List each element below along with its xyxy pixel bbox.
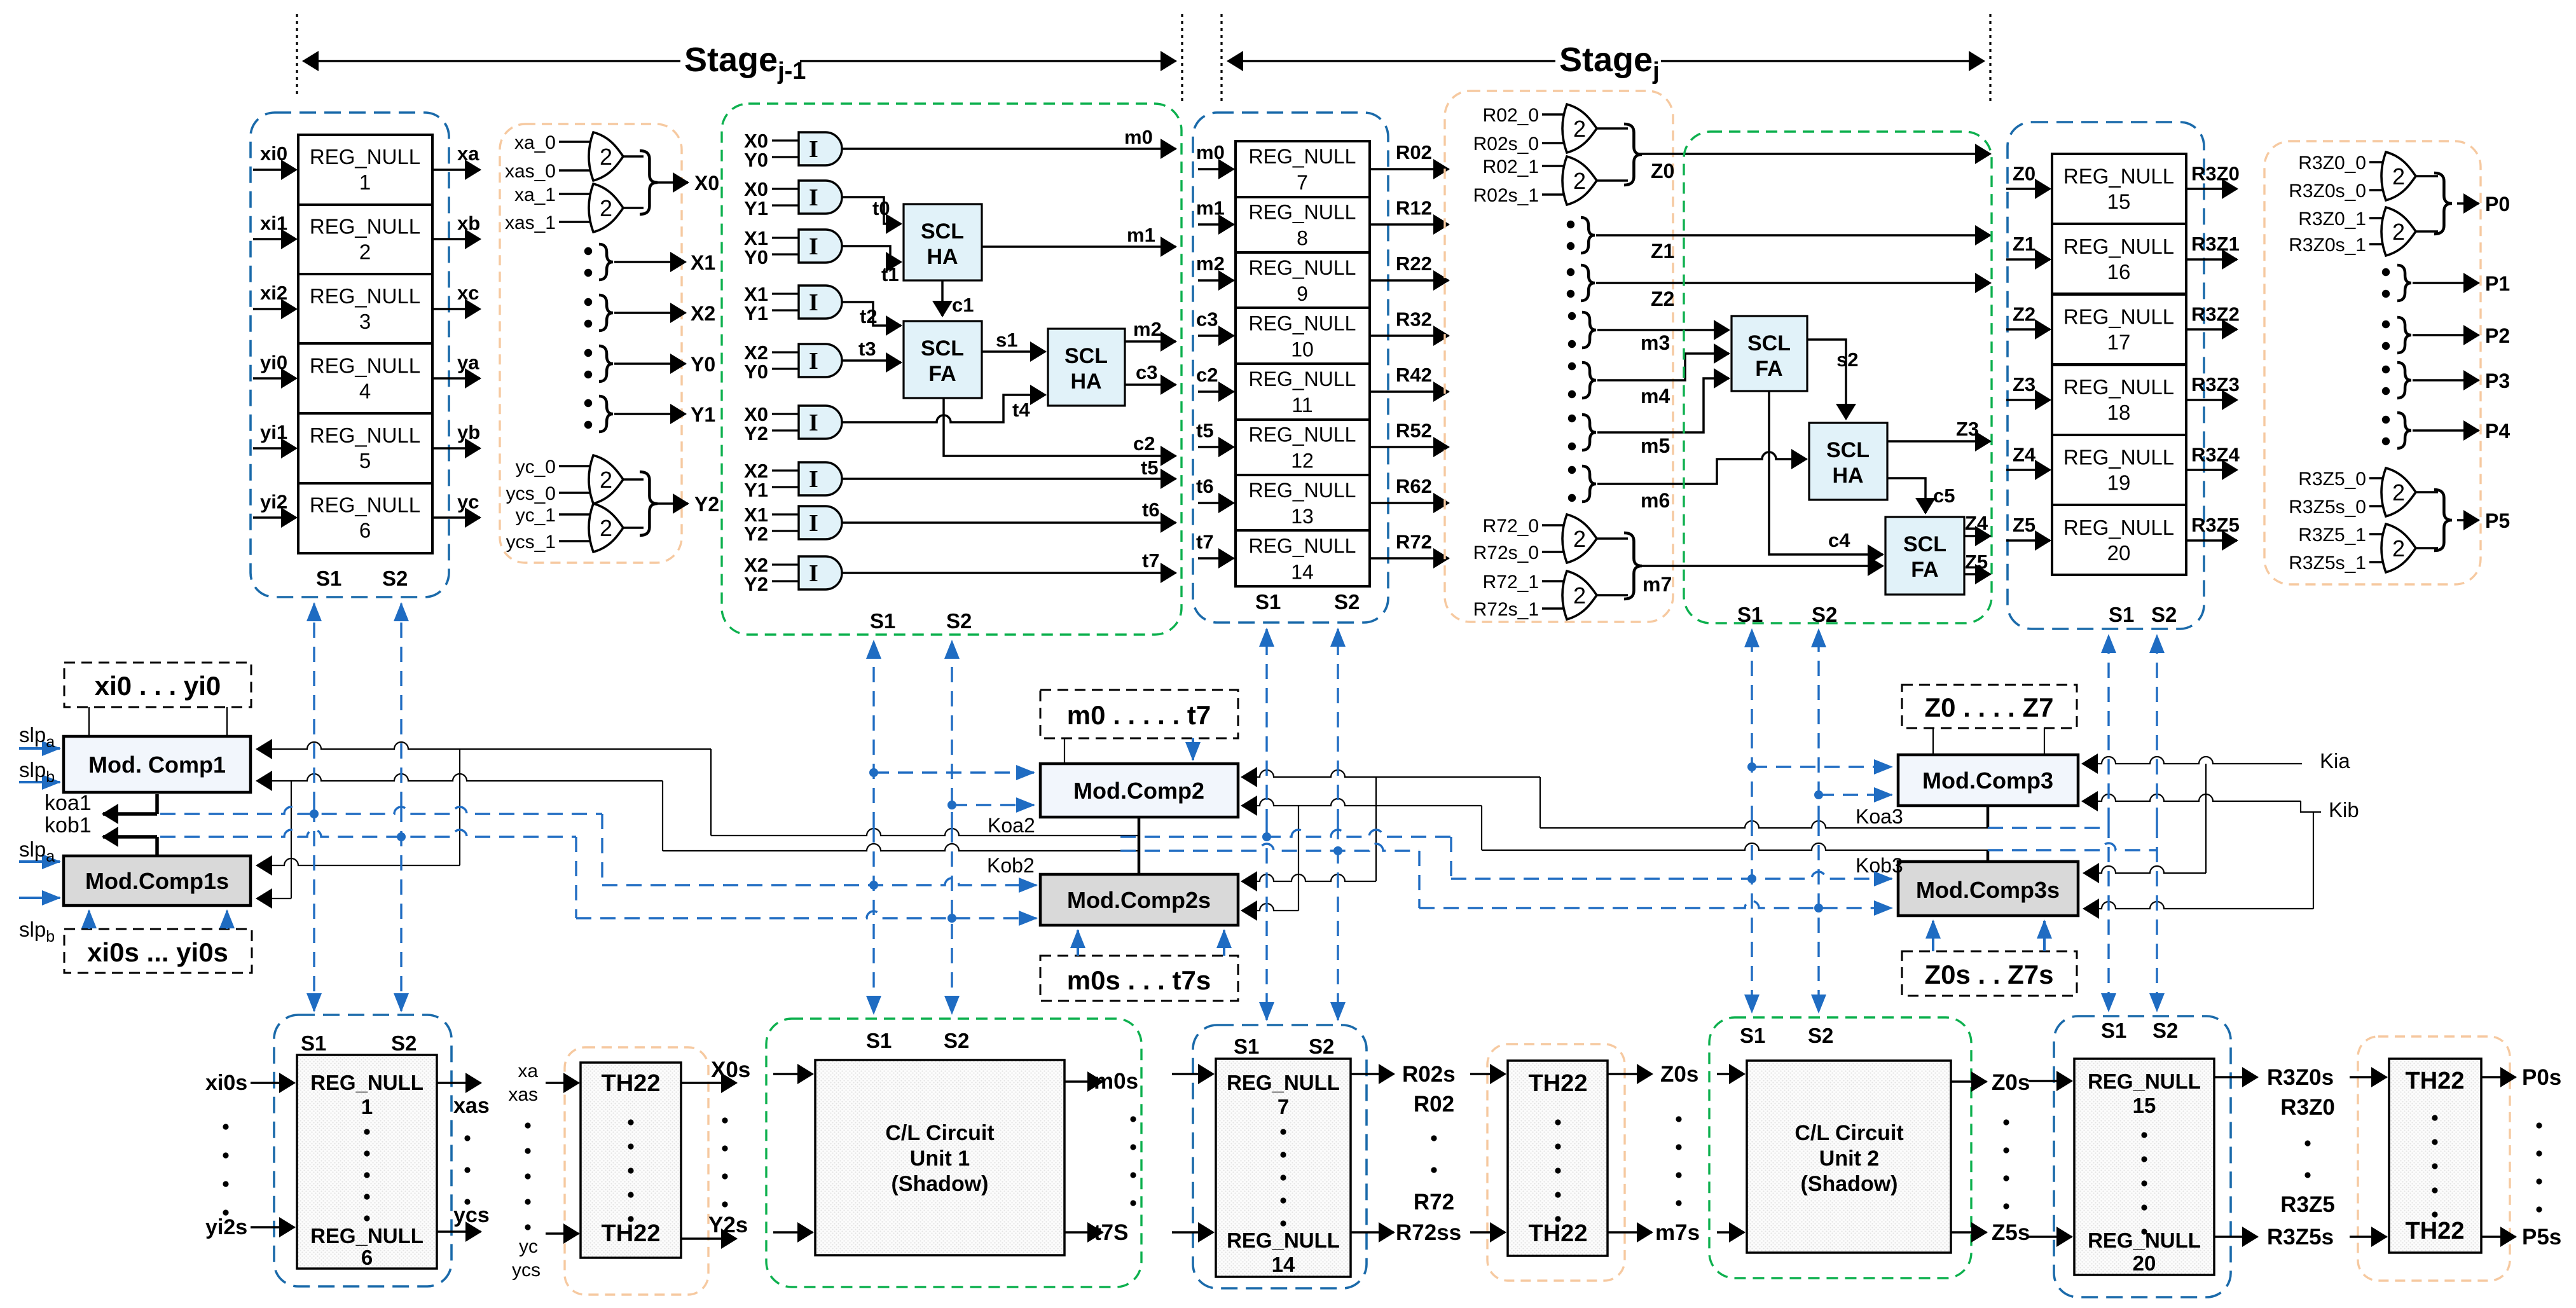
shadow register bank REG_NULL 7-14s dashed enclosure: [1193, 1025, 1367, 1288]
shadow register bank REG_NULL 15-20s dashed enclosure: [2054, 1016, 2231, 1297]
TH22 column 3 dashed enclosure: [2358, 1036, 2510, 1281]
svg-text:S2: S2: [2151, 603, 2177, 626]
svg-text:12: 12: [1291, 449, 1314, 472]
mux (abbrev dots) m5: [1568, 415, 1576, 422]
wire Koa2: [711, 829, 1139, 836]
svg-text:R02_1: R02_1: [1483, 156, 1539, 177]
wire c4: [1769, 391, 1883, 554]
svg-text:3: 3: [359, 310, 371, 333]
svg-text:xa_0: xa_0: [514, 132, 556, 153]
svg-text:Z0s: Z0s: [1660, 1062, 1698, 1087]
wire yc/ycs into TH22: [546, 1232, 579, 1235]
svg-text:REG_NULL: REG_NULL: [1227, 1071, 1340, 1094]
wire R3Z0s: [2214, 1076, 2257, 1078]
wire output ya: [432, 377, 480, 380]
wire c2: [944, 398, 1176, 456]
wire P5s: [2481, 1236, 2516, 1238]
svg-text:c2: c2: [1133, 432, 1155, 455]
mux (abbrev dots) X2: [584, 298, 592, 306]
wire into unit1 bottom: [773, 1231, 813, 1234]
svg-text:TH22: TH22: [602, 1220, 661, 1247]
svg-text:P4: P4: [2485, 420, 2510, 443]
junction dot at 631,1316: [397, 832, 406, 841]
svg-text:Z5: Z5: [2013, 514, 2035, 536]
register REG_NULL 13: [1236, 475, 1370, 531]
svg-text:R72s_1: R72s_1: [1473, 599, 1539, 620]
wire S1 rail REG bank 2 (blue dashed): [1265, 629, 1267, 824]
node box xi0s...yi0s: [64, 929, 252, 973]
svg-text:Mod. Comp1: Mod. Comp1: [88, 752, 226, 778]
svg-text:c5: c5: [1933, 485, 1955, 507]
node box xi0...yi0: [64, 663, 251, 707]
svg-text:c3: c3: [1136, 361, 1157, 383]
wire xi0s-yi0s to Comp1s (blue arrows): [88, 911, 90, 929]
svg-text:R3Z4: R3Z4: [2191, 443, 2240, 465]
register REG_NULL 20: [2052, 505, 2186, 575]
junction dot at 494,1280: [310, 809, 319, 818]
brace P0: [2434, 173, 2452, 234]
wire S1 rail REG bank 3 (blue dashed): [2107, 635, 2109, 823]
svg-text:REG_NULL: REG_NULL: [1249, 200, 1356, 223]
svg-text:m6: m6: [1641, 489, 1670, 512]
brace Z0: [1624, 124, 1642, 185]
svg-text:s1: s1: [996, 329, 1017, 351]
svg-text:20: 20: [2133, 1251, 2156, 1275]
wire Koa2 select (blue dashed): [1120, 830, 1451, 837]
svg-text:R3Z0: R3Z0: [2280, 1095, 2335, 1120]
wire m1: [982, 245, 1176, 248]
wire P1: [2413, 282, 2479, 284]
completion detector Mod.Comp3s: [1898, 862, 2078, 916]
register REG_NULL 1: [298, 135, 432, 205]
svg-text:X0: X0: [694, 172, 719, 195]
svg-text:S1: S1: [1255, 590, 1281, 614]
svg-text:Z5s: Z5s: [1992, 1220, 2030, 1245]
svg-text:xi0 . . . yi0: xi0 . . . yi0: [95, 671, 221, 701]
svg-text:REG_NULL: REG_NULL: [1249, 145, 1356, 168]
svg-text:t5: t5: [1196, 419, 1214, 441]
wire output R02: [1370, 168, 1449, 170]
wire Kob3 branch to Comp2s: [1298, 806, 1299, 911]
wire input t5: [1198, 446, 1234, 448]
svg-text:R3Z1: R3Z1: [2191, 233, 2240, 255]
svg-text:m3: m3: [1641, 331, 1670, 354]
svg-text:X0s: X0s: [711, 1057, 750, 1082]
svg-text:R3Z0: R3Z0: [2191, 162, 2240, 184]
wire P4: [2413, 429, 2479, 432]
svg-text:Y2: Y2: [694, 493, 719, 516]
svg-text:m0s: m0s: [1094, 1069, 1138, 1094]
wire yi2s: [251, 1226, 294, 1229]
completion detector Mod. Comp1: [64, 736, 251, 792]
wire output R52: [1370, 446, 1449, 448]
svg-text:18: 18: [2107, 401, 2131, 424]
svg-text:xa: xa: [457, 142, 479, 165]
svg-text:S1: S1: [2109, 603, 2134, 626]
wire input Z0: [2006, 188, 2050, 190]
wire Koa2 branch to Comp1s: [459, 749, 460, 865]
wire into REG15-20s bottom: [2028, 1236, 2072, 1238]
register REG_NULL 17: [2052, 294, 2186, 364]
wire xi0s: [251, 1082, 294, 1084]
svg-text:Z4: Z4: [2013, 443, 2036, 465]
svg-text:REG_NULL: REG_NULL: [310, 423, 420, 447]
svg-text:yi1: yi1: [260, 421, 287, 443]
svg-text:t5: t5: [1141, 457, 1159, 479]
wire m7s: [1608, 1231, 1652, 1234]
wire P3: [2413, 379, 2479, 382]
svg-text:Y1: Y1: [744, 479, 768, 501]
svg-text:R12: R12: [1396, 196, 1432, 219]
TH22 block column 2: [1508, 1061, 1608, 1256]
wire s1: [982, 350, 1045, 353]
wire output R72: [1370, 557, 1449, 560]
mux (abbrev dots) m4: [1568, 362, 1576, 370]
mux (abbrev dots) Y0: [584, 349, 592, 357]
svg-text:REG_NULL: REG_NULL: [310, 1071, 424, 1094]
TH22 block column 1: [581, 1063, 681, 1258]
completion detector Mod.Comp3: [1898, 755, 2078, 806]
svg-text:TH22: TH22: [2406, 1068, 2465, 1094]
svg-text:R3Z0s_1: R3Z0s_1: [2289, 235, 2366, 256]
wire slpb: [19, 897, 60, 899]
wire into TH22-3 top: [2350, 1076, 2387, 1078]
register REG_NULL 8: [1236, 197, 1370, 253]
mux (abbrev dots) P3: [2382, 366, 2390, 373]
svg-text:Mod.Comp3: Mod.Comp3: [1922, 768, 2053, 794]
junction dot at 2860,1250: [1814, 790, 1823, 799]
svg-text:Z0: Z0: [1651, 160, 1674, 182]
svg-text:Z1: Z1: [2013, 233, 2035, 255]
svg-text:m7: m7: [1643, 573, 1672, 596]
register bank REG_NULL 7-14 dashed enclosure: [1193, 113, 1388, 623]
brace Y2: [640, 472, 658, 535]
svg-text:REG_NULL: REG_NULL: [310, 214, 420, 238]
junction dot at 1374,1215: [869, 768, 878, 777]
svg-text:Y1: Y1: [744, 302, 768, 324]
svg-text:REG_NULL: REG_NULL: [2088, 1229, 2201, 1252]
svg-text:c2: c2: [1196, 364, 1218, 386]
svg-text:Unit 1: Unit 1: [910, 1146, 970, 1171]
wire input xi1: [253, 238, 296, 240]
svg-text:REG_NULL: REG_NULL: [310, 354, 420, 377]
register REG_NULL 3: [298, 274, 432, 344]
wire input Z4: [2006, 469, 2050, 471]
svg-text:P1: P1: [2485, 272, 2510, 295]
junction dot at 1992,1316: [1262, 832, 1271, 841]
svg-text:Z3: Z3: [2013, 373, 2035, 396]
svg-text:xa_1: xa_1: [514, 184, 556, 205]
node box Z0....Z7: [1902, 685, 2077, 728]
wire Z0s-Z7s to Comp3s (blue arrows): [1932, 921, 1934, 951]
svg-text:Unit 2: Unit 2: [1819, 1146, 1879, 1171]
wire t1: [842, 246, 901, 262]
junction dot at 2860,1428: [1814, 904, 1823, 912]
svg-text:c1: c1: [952, 294, 974, 316]
wire input m2: [1198, 279, 1234, 282]
wire output R12: [1370, 223, 1449, 226]
svg-text:S1: S1: [870, 609, 895, 633]
svg-text:s2: s2: [1836, 348, 1858, 371]
svg-text:Kib: Kib: [2329, 798, 2359, 822]
wire Z0s out of TH22-2: [1608, 1073, 1652, 1075]
svg-text:1: 1: [361, 1095, 373, 1119]
svg-text:REG_NULL: REG_NULL: [1249, 534, 1356, 557]
register REG_NULL 11: [1236, 364, 1370, 420]
register REG_NULL 19: [2052, 435, 2186, 505]
wire Kob2: [663, 844, 1139, 851]
register REG_NULL 18: [2052, 365, 2186, 435]
svg-text:HA: HA: [926, 245, 958, 269]
svg-text:REG_NULL: REG_NULL: [310, 145, 420, 169]
wire Z1: [1596, 234, 1990, 237]
svg-text:R22: R22: [1396, 252, 1432, 275]
svg-text:Kia: Kia: [2320, 749, 2350, 773]
svg-text:15: 15: [2133, 1094, 2156, 1117]
svg-text:Z5: Z5: [1965, 551, 1988, 573]
wire into TH22-2 bottom: [1470, 1231, 1505, 1234]
svg-text:X1: X1: [691, 251, 715, 274]
svg-text:REG_NULL: REG_NULL: [310, 284, 420, 308]
wire input xi0: [253, 169, 296, 171]
svg-text:R3Z5s: R3Z5s: [2267, 1225, 2334, 1249]
svg-text:Y0: Y0: [744, 361, 768, 383]
wire S1 rail C/L unit 2 (blue dashed): [1751, 630, 1753, 821]
register bank REG_NULL 1-6 dashed enclosure: [251, 113, 449, 597]
svg-text:yi2s: yi2s: [205, 1215, 247, 1239]
SCL HA 2: [1048, 329, 1125, 406]
svg-text:4: 4: [359, 379, 371, 403]
svg-text:S1: S1: [2101, 1019, 2126, 1042]
wire Y2: [658, 502, 688, 505]
svg-text:t6: t6: [1142, 499, 1160, 521]
wire X1: [614, 261, 685, 263]
wire t7S: [1064, 1231, 1103, 1234]
svg-text:R3Z0_1: R3Z0_1: [2298, 209, 2366, 230]
svg-text:FA: FA: [1755, 357, 1782, 381]
svg-text:t1: t1: [881, 263, 899, 286]
svg-text:REG_NULL: REG_NULL: [2088, 1070, 2201, 1093]
register REG_NULL 2: [298, 205, 432, 275]
svg-text:yc: yc: [519, 1236, 538, 1257]
wire P5: [2457, 519, 2479, 521]
svg-text:SCL: SCL: [1747, 331, 1791, 355]
svg-text:P2: P2: [2485, 324, 2510, 347]
register REG_NULL 10: [1236, 308, 1370, 364]
wire R3Z5s: [2214, 1236, 2257, 1238]
mux column 1 dashed enclosure: [500, 124, 682, 563]
brace P5: [2434, 490, 2452, 551]
svg-text:SCL: SCL: [921, 219, 964, 244]
svg-text:t6: t6: [1196, 475, 1214, 497]
svg-text:REG_NULL: REG_NULL: [1249, 479, 1356, 502]
wire output R42: [1370, 390, 1449, 393]
svg-text:REG_NULL: REG_NULL: [1227, 1229, 1340, 1252]
wire ycs: [437, 1230, 481, 1233]
wire Kia branch to Comp3s: [2205, 764, 2207, 873]
wire into unit1 top: [773, 1073, 813, 1075]
svg-text:R3Z0s: R3Z0s: [2267, 1065, 2334, 1090]
wire input m0: [1198, 168, 1234, 170]
completion detector Mod.Comp1s: [64, 856, 251, 905]
svg-text:kob1: kob1: [45, 813, 92, 837]
svg-text:16: 16: [2107, 260, 2131, 284]
shadow register REG_NULL 7..14: [1216, 1059, 1351, 1277]
svg-text:R52: R52: [1396, 419, 1432, 441]
wire output R22: [1370, 279, 1449, 282]
wire output R32: [1370, 334, 1449, 337]
svg-text:t0: t0: [872, 197, 890, 219]
svg-text:REG_NULL: REG_NULL: [2063, 305, 2174, 328]
svg-text:xas: xas: [508, 1084, 538, 1105]
wire Kob3 select (blue dashed): [1988, 843, 2157, 850]
svg-text:R72ss: R72ss: [1396, 1220, 1461, 1245]
wire m4: [1597, 354, 1729, 380]
mux (abbrev dots) Z2: [1567, 268, 1574, 276]
wire select corner verticals (blue dashed): [601, 814, 603, 885]
svg-text:FA: FA: [1911, 558, 1938, 582]
svg-text:REG_NULL: REG_NULL: [1249, 368, 1356, 390]
wire S1 rail C/L unit 1 (blue dashed): [872, 641, 874, 827]
wire xa/xas into TH22: [546, 1082, 579, 1084]
junction dot at 1497,1444: [947, 914, 956, 923]
wire input yi0: [253, 377, 296, 380]
svg-text:m2: m2: [1133, 318, 1162, 340]
mux (abbrev dots) m3: [1568, 312, 1576, 320]
junction dot at 2755,1382: [1747, 874, 1756, 883]
wire Kob2 select (blue dashed): [1120, 844, 1419, 851]
wire Y1: [614, 413, 685, 415]
svg-text:S2: S2: [1309, 1035, 1334, 1058]
wire S2 rail C/L unit 1 (blue dashed): [951, 641, 953, 827]
svg-text:S1: S1: [866, 1029, 892, 1052]
svg-text:yc_1: yc_1: [516, 505, 556, 526]
stage delimiter dotted line right: [1989, 14, 1991, 102]
wire output R3Z3: [2186, 399, 2237, 401]
svg-text:7: 7: [1297, 171, 1308, 194]
svg-text:20: 20: [2107, 541, 2131, 565]
wire m6: [1597, 452, 1807, 484]
wire R02s: [1351, 1073, 1394, 1075]
wire output R3Z0: [2186, 188, 2237, 190]
register REG_NULL 16: [2052, 224, 2186, 294]
svg-text:Mod.Comp2s: Mod.Comp2s: [1067, 887, 1211, 913]
svg-text:xas: xas: [453, 1094, 490, 1118]
wire t3: [842, 361, 901, 362]
svg-text:xc: xc: [457, 282, 479, 304]
wire Y0: [614, 362, 685, 365]
svg-text:R42: R42: [1396, 364, 1432, 386]
svg-text:11: 11: [1291, 394, 1312, 416]
wire output R3Z2: [2186, 328, 2237, 331]
stage delimiter dotted lines middle: [1181, 14, 1183, 102]
svg-text:ycs_0: ycs_0: [506, 483, 556, 504]
AND gate G7 inputs X2,Y1: [772, 462, 842, 495]
wire koa1: [155, 794, 159, 814]
wire Z2: [1596, 282, 1990, 284]
mux column 3 dashed enclosure: [2264, 141, 2481, 584]
junction dot at 1497,1266: [947, 801, 956, 809]
register REG_NULL 6: [298, 483, 432, 553]
svg-text:m1: m1: [1127, 224, 1155, 246]
AND gate G5 inputs X2,Y0: [772, 344, 842, 377]
wire Z5: [1964, 573, 1990, 575]
wire S2 rail C/L unit 2 (blue dashed): [1817, 630, 1819, 821]
AND gate G6 inputs X0,Y2: [772, 406, 842, 439]
svg-text:m0s . . . t7s: m0s . . . t7s: [1067, 965, 1211, 995]
C/L circuit unit 2 dashed enclosure: [1684, 132, 1992, 623]
svg-text:REG_NULL: REG_NULL: [2063, 164, 2174, 188]
wire P0: [2457, 202, 2479, 205]
AND gate G4 inputs X1,Y1: [772, 286, 842, 319]
svg-text:yc_0: yc_0: [516, 457, 556, 478]
wire Y2s: [681, 1237, 736, 1240]
svg-text:Stagej: Stagej: [1559, 41, 1660, 85]
AND gate G9 inputs X2,Y2: [772, 556, 842, 589]
wire output xb: [432, 238, 480, 240]
svg-text:17: 17: [2107, 330, 2131, 354]
wire S2 rail REG bank 1 (blue dashed): [400, 603, 402, 807]
svg-text:t2: t2: [860, 305, 878, 327]
svg-text:S2: S2: [2152, 1019, 2178, 1042]
wire Kia: [2083, 757, 2302, 764]
svg-text:t4: t4: [1012, 399, 1030, 421]
svg-text:14: 14: [1272, 1253, 1295, 1276]
svg-text:m0: m0: [1196, 141, 1225, 163]
wire Comp2 output tap: [1138, 817, 1141, 874]
TH22 column 1 dashed enclosure: [565, 1047, 708, 1295]
wire m5: [1597, 378, 1729, 432]
svg-text:REG_NULL: REG_NULL: [2063, 445, 2174, 469]
wire output R3Z5: [2186, 539, 2237, 542]
wire Koa3: [1987, 806, 1990, 828]
svg-text:m5: m5: [1641, 434, 1670, 457]
wire Z3: [1887, 440, 1990, 443]
svg-text:Mod.Comp2: Mod.Comp2: [1073, 778, 1204, 804]
svg-text:t7: t7: [1196, 530, 1214, 553]
svg-text:Y2s: Y2s: [708, 1213, 748, 1237]
svg-text:Y0: Y0: [744, 246, 768, 268]
svg-text:TH22: TH22: [1529, 1070, 1588, 1097]
wire Kib branch to Comp3s: [2313, 812, 2314, 909]
wire xi0yi0 to Comp1: [88, 707, 90, 735]
svg-text:Y0: Y0: [691, 353, 715, 376]
wire t5: [842, 478, 1176, 480]
wire R72ss: [1351, 1231, 1394, 1234]
svg-text:xa: xa: [518, 1061, 538, 1082]
wire c5: [1887, 478, 1925, 513]
svg-text:Y1: Y1: [744, 197, 768, 219]
svg-text:14: 14: [1291, 560, 1314, 583]
svg-text:R02: R02: [1414, 1092, 1454, 1117]
node box Z0s..Z7s: [1902, 951, 2077, 996]
wire S2 into Comp3 (blue dashed): [1819, 794, 1892, 795]
wire S1 into Comp3 (blue dashed): [1752, 766, 1892, 768]
svg-text:Z4: Z4: [1965, 512, 1988, 534]
svg-text:REG_NULL: REG_NULL: [310, 1224, 424, 1248]
wire c1: [941, 280, 944, 316]
svg-text:REG_NULL: REG_NULL: [2063, 235, 2174, 258]
svg-text:S2: S2: [382, 567, 408, 590]
svg-text:5: 5: [359, 449, 371, 472]
SCL FA 2 stage-j: [1885, 517, 1964, 595]
svg-text:19: 19: [2107, 471, 2131, 494]
svg-text:SCL: SCL: [1064, 344, 1108, 368]
svg-text:R3Z0s_0: R3Z0s_0: [2289, 181, 2366, 202]
svg-text:xi1: xi1: [260, 212, 287, 234]
brace m7: [1624, 533, 1642, 599]
svg-text:P5s: P5s: [2522, 1225, 2561, 1249]
